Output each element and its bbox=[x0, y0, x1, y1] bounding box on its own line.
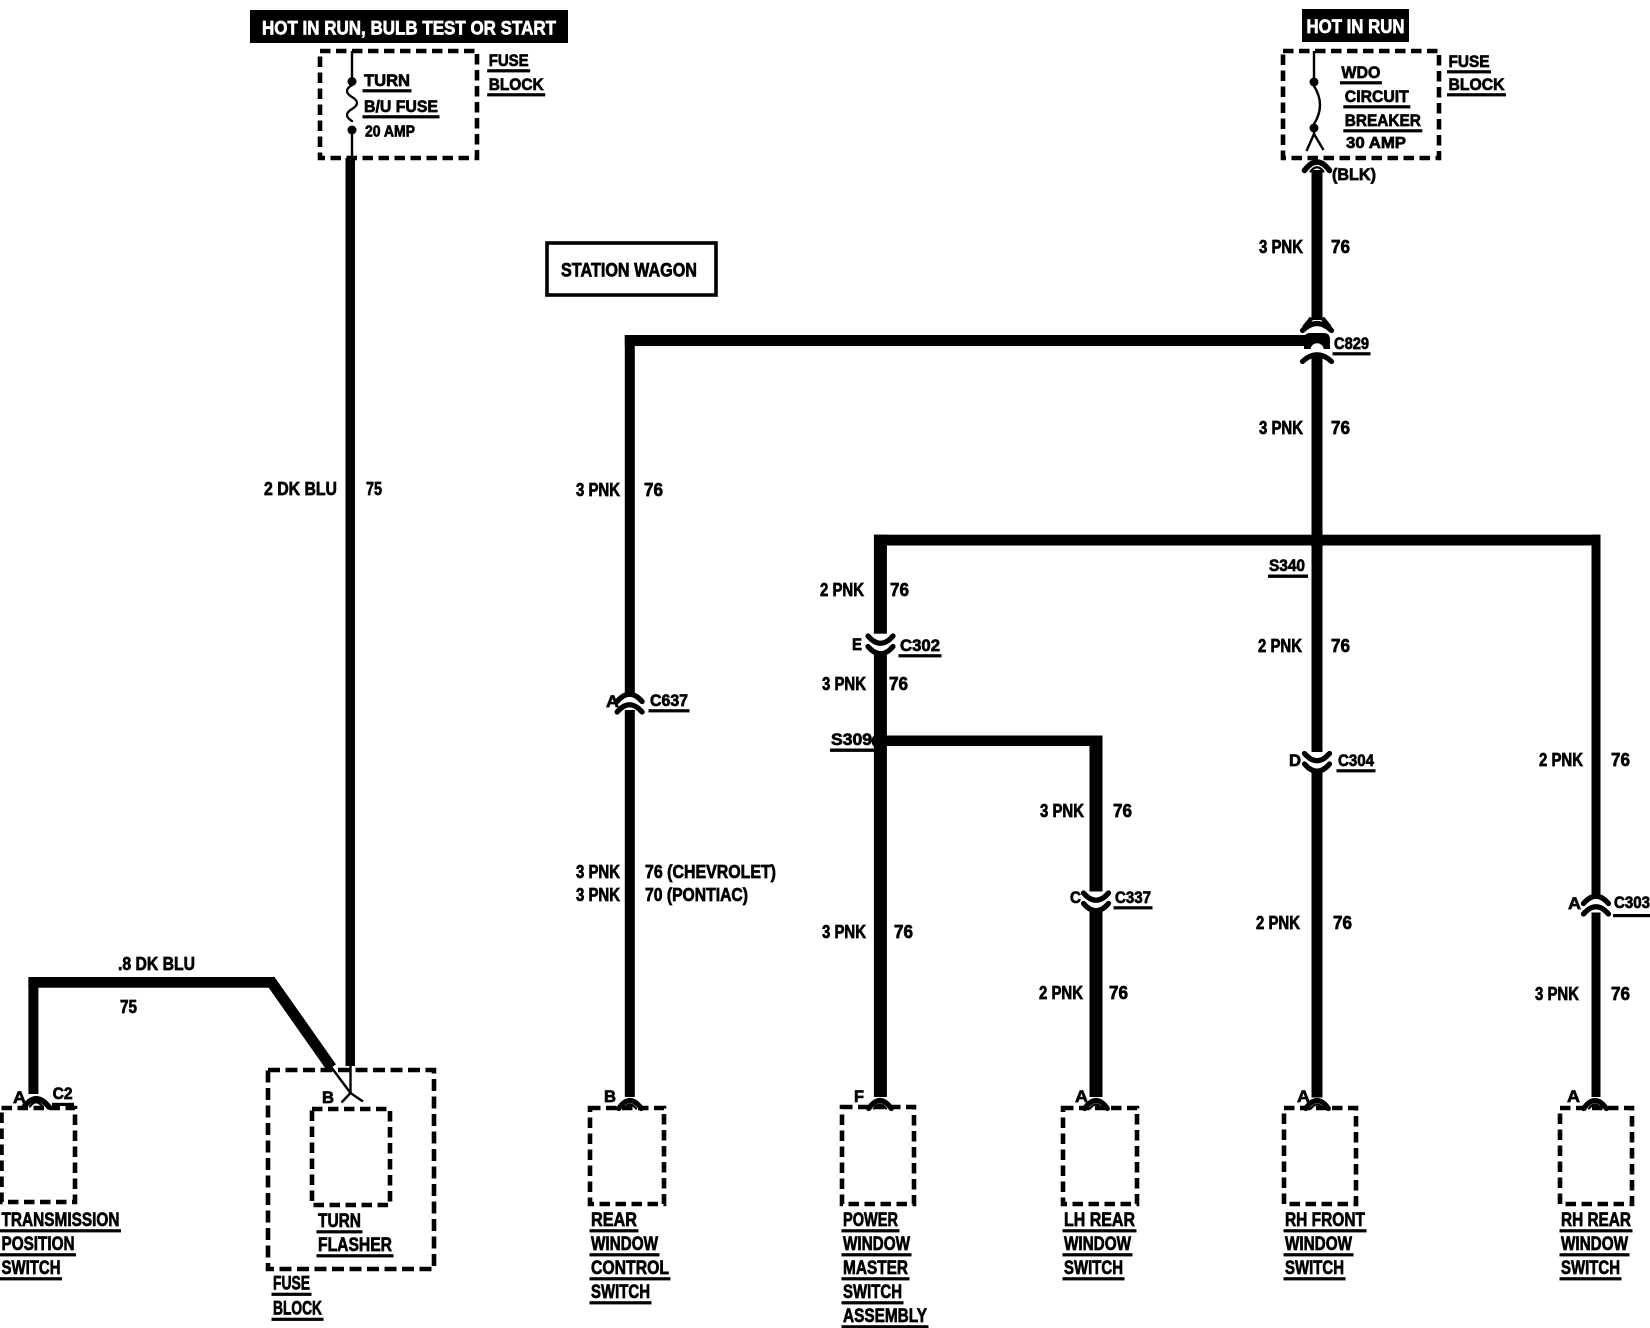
pin B of rear window control switch bbox=[604, 1087, 641, 1109]
pin A of RH front window switch bbox=[1297, 1087, 1328, 1109]
pin A of LH rear window switch bbox=[1075, 1087, 1107, 1109]
wire from station-wagon branch to C829 bbox=[625, 335, 1307, 693]
svg-text:3 PNK: 3 PNK bbox=[822, 674, 866, 694]
pin A C2 of transmission position switch bbox=[13, 1084, 74, 1107]
wire 3 PNK 76 C829 to S340 bbox=[1312, 357, 1323, 542]
label 3 PNK 76 (above RH rear pin A) bbox=[1535, 984, 1630, 1004]
svg-text:C2: C2 bbox=[53, 1084, 73, 1103]
connector C829 symbol bbox=[1303, 318, 1332, 362]
LH rear window switch box bbox=[1063, 1108, 1137, 1204]
label 3 PNK 76 (upper right) bbox=[1259, 237, 1350, 257]
svg-text:BLOCK: BLOCK bbox=[1449, 75, 1506, 94]
svg-text:3 PNK: 3 PNK bbox=[576, 862, 620, 882]
svg-text:S309: S309 bbox=[831, 730, 872, 749]
svg-text:BLOCK: BLOCK bbox=[489, 75, 545, 94]
connector C302 symbol bbox=[868, 636, 893, 654]
svg-text:HOT IN RUN, BULB TEST OR START: HOT IN RUN, BULB TEST OR START bbox=[262, 18, 556, 40]
label 3 PNK 76 (above S340) bbox=[1259, 418, 1350, 438]
wire S340 horizontal bus bbox=[874, 535, 1601, 546]
turn flasher fuse block outer box bbox=[268, 1070, 434, 1269]
svg-text:3 PNK: 3 PNK bbox=[1535, 984, 1579, 1004]
connector terminal (BLK) at fuse block bbox=[1305, 162, 1330, 172]
svg-text:2 PNK: 2 PNK bbox=[1256, 913, 1300, 933]
svg-text:75: 75 bbox=[120, 997, 137, 1017]
svg-text:D: D bbox=[1289, 751, 1301, 770]
wire 3 PNK 76 C303 to RH rear window switch bbox=[1592, 913, 1601, 1098]
wire 2 PNK 76 S340 to C302 bbox=[874, 535, 887, 634]
power window master switch assembly box bbox=[842, 1107, 914, 1204]
svg-text:CIRCUIT: CIRCUIT bbox=[1345, 87, 1410, 106]
svg-text:WDO: WDO bbox=[1341, 63, 1380, 82]
fuse TURN B/U FUSE 20 AMP symbol bbox=[347, 51, 357, 158]
label 2 PNK 76 (above C304) bbox=[1258, 636, 1350, 656]
svg-text:2 PNK: 2 PNK bbox=[1039, 983, 1083, 1003]
label POWER WINDOW MASTER SWITCH ASSEMBLY bbox=[842, 1210, 929, 1328]
turn flasher inner box bbox=[312, 1109, 390, 1205]
label TRANSMISSION POSITION SWITCH bbox=[0, 1210, 121, 1280]
svg-text:F: F bbox=[854, 1087, 864, 1106]
svg-text:TRANSMISSION: TRANSMISSION bbox=[2, 1210, 120, 1231]
svg-text:WINDOW: WINDOW bbox=[843, 1234, 910, 1255]
svg-text:FUSE: FUSE bbox=[489, 51, 529, 70]
wire 2 PNK 76 S340 to C304 bbox=[1312, 542, 1323, 752]
svg-text:70 (PONTIAC): 70 (PONTIAC) bbox=[645, 885, 748, 905]
wire 2 PNK 76 C304 to RH front window switch bbox=[1312, 769, 1323, 1098]
svg-text:76: 76 bbox=[1113, 801, 1132, 821]
label S309 bbox=[830, 730, 874, 752]
wire 2 PNK 76 S340 to C303 bbox=[1592, 535, 1601, 895]
label 3 PNK 76 (station wagon branch) bbox=[576, 480, 663, 500]
label RH REAR WINDOW SWITCH bbox=[1560, 1210, 1633, 1280]
svg-text:A: A bbox=[13, 1088, 26, 1107]
svg-text:2 PNK: 2 PNK bbox=[820, 580, 864, 600]
svg-text:76: 76 bbox=[644, 480, 663, 500]
svg-text:WINDOW: WINDOW bbox=[1285, 1234, 1352, 1255]
wire .8 DK BLU 75 to transmission position switch bbox=[28, 977, 275, 1094]
svg-text:C303: C303 bbox=[1614, 893, 1650, 912]
svg-text:30 AMP: 30 AMP bbox=[1346, 135, 1406, 152]
junction S309 bbox=[872, 734, 887, 749]
label S340 bbox=[1268, 556, 1308, 578]
banner: HOT IN RUN bbox=[1302, 9, 1409, 42]
svg-text:2 PNK: 2 PNK bbox=[1258, 636, 1302, 656]
label C829 bbox=[1333, 334, 1371, 355]
svg-text:RH FRONT: RH FRONT bbox=[1285, 1210, 1365, 1231]
svg-text:SWITCH: SWITCH bbox=[1285, 1258, 1344, 1279]
fuse block (turn b/u fuse) dashed box bbox=[320, 51, 477, 158]
svg-text:2 PNK: 2 PNK bbox=[1539, 750, 1583, 770]
label REAR WINDOW CONTROL SWITCH bbox=[590, 1210, 671, 1304]
wire 3 PNK 76 breaker to C829 bbox=[1312, 170, 1323, 320]
svg-text:E: E bbox=[852, 635, 862, 654]
label FUSE BLOCK (turn flasher) bbox=[272, 1274, 324, 1321]
label pin B of turn flasher bbox=[322, 1088, 334, 1107]
svg-text:76: 76 bbox=[1333, 913, 1352, 933]
svg-text:76: 76 bbox=[1109, 983, 1128, 1003]
svg-text:BREAKER: BREAKER bbox=[1345, 111, 1421, 130]
RH front window switch box bbox=[1284, 1108, 1356, 1204]
svg-text:76: 76 bbox=[1331, 636, 1350, 656]
label 2 PNK 76 (above LH rear pin A) bbox=[1039, 983, 1128, 1003]
svg-text:3 PNK: 3 PNK bbox=[576, 885, 620, 905]
svg-text:CONTROL: CONTROL bbox=[591, 1258, 669, 1279]
svg-text:20 AMP: 20 AMP bbox=[365, 124, 415, 141]
RH rear window switch box bbox=[1560, 1108, 1632, 1204]
station wagon callout box bbox=[547, 243, 716, 295]
label 2 PNK 76 (above C302) bbox=[820, 580, 909, 600]
wire 3 PNK 76/70 C637 to rear window control switch bbox=[625, 710, 635, 1097]
label RH FRONT WINDOW SWITCH bbox=[1284, 1210, 1367, 1280]
svg-text:C304: C304 bbox=[1338, 751, 1374, 770]
svg-text:C337: C337 bbox=[1115, 888, 1151, 907]
label A C637 bbox=[606, 691, 690, 712]
svg-text:WINDOW: WINDOW bbox=[591, 1234, 658, 1255]
label 2 PNK 76 (above RH front pin A) bbox=[1256, 913, 1352, 933]
svg-text:75: 75 bbox=[366, 479, 382, 499]
fuse block (wdo circuit breaker) dashed box bbox=[1283, 51, 1439, 158]
label .8 DK BLU 75 bbox=[118, 954, 195, 1017]
wire S309 to C337 branch bbox=[879, 736, 1103, 892]
connector C304 symbol bbox=[1305, 754, 1330, 772]
svg-text:C637: C637 bbox=[650, 691, 688, 710]
svg-text:C829: C829 bbox=[1334, 334, 1369, 353]
svg-text:STATION WAGON: STATION WAGON bbox=[561, 261, 697, 282]
svg-text:2 DK BLU: 2 DK BLU bbox=[264, 479, 337, 499]
svg-text:SWITCH: SWITCH bbox=[591, 1282, 650, 1303]
svg-text:3 PNK: 3 PNK bbox=[1259, 237, 1303, 257]
svg-text:A: A bbox=[606, 692, 619, 711]
svg-text:POSITION: POSITION bbox=[2, 1234, 75, 1255]
label LH REAR WINDOW SWITCH bbox=[1063, 1210, 1137, 1280]
svg-text:.8 DK BLU: .8 DK BLU bbox=[118, 954, 195, 974]
svg-text:76: 76 bbox=[1331, 418, 1350, 438]
svg-text:MASTER: MASTER bbox=[843, 1258, 908, 1279]
svg-text:76: 76 bbox=[1331, 237, 1350, 257]
wire 3 PNK 76 S309 to power window master switch bbox=[874, 741, 887, 1097]
svg-text:C302: C302 bbox=[900, 636, 940, 655]
svg-text:S340: S340 bbox=[1269, 556, 1305, 575]
svg-text:FUSE: FUSE bbox=[1449, 52, 1490, 71]
label 3 PNK 76 (above S309) bbox=[822, 674, 908, 694]
svg-text:TURN: TURN bbox=[318, 1211, 361, 1232]
svg-text:76: 76 bbox=[889, 674, 908, 694]
svg-text:3 PNK: 3 PNK bbox=[576, 480, 620, 500]
circuit breaker WDO 30 AMP symbol bbox=[1307, 51, 1324, 151]
label (BLK) bbox=[1332, 165, 1376, 184]
svg-text:A: A bbox=[1297, 1087, 1310, 1106]
svg-text:WINDOW: WINDOW bbox=[1064, 1234, 1131, 1255]
svg-text:TURN: TURN bbox=[364, 71, 410, 90]
svg-text:3 PNK: 3 PNK bbox=[822, 922, 866, 942]
label E C302 bbox=[852, 635, 942, 657]
connector C637 symbol bbox=[617, 694, 642, 712]
transmission position switch box bbox=[2, 1108, 76, 1202]
label FUSE BLOCK (left) bbox=[487, 51, 545, 96]
svg-text:POWER: POWER bbox=[843, 1210, 898, 1231]
label A C303 bbox=[1568, 893, 1650, 917]
label 3 PNK 76 (CHEVROLET) / 3 PNK 70 (PONTIAC) bbox=[576, 862, 776, 905]
svg-text:C: C bbox=[1070, 888, 1081, 907]
svg-text:RH REAR: RH REAR bbox=[1561, 1210, 1631, 1231]
svg-text:SWITCH: SWITCH bbox=[843, 1282, 902, 1303]
junction S340 bbox=[1310, 535, 1324, 549]
svg-text:A: A bbox=[1075, 1087, 1088, 1106]
label D C304 bbox=[1289, 751, 1376, 772]
wire 3 PNK 76 C302 to S309 bbox=[874, 655, 887, 741]
svg-text:B/U FUSE: B/U FUSE bbox=[364, 97, 438, 116]
svg-text:76: 76 bbox=[890, 580, 909, 600]
pin A of RH rear window switch bbox=[1567, 1087, 1606, 1109]
svg-text:SWITCH: SWITCH bbox=[1064, 1258, 1123, 1279]
label 2 DK BLU 75 bbox=[264, 479, 382, 499]
svg-text:ASSEMBLY: ASSEMBLY bbox=[843, 1306, 927, 1327]
svg-text:SWITCH: SWITCH bbox=[1561, 1258, 1620, 1279]
wire 2 PNK 76 C337 to LH rear window switch bbox=[1090, 909, 1103, 1097]
svg-text:REAR: REAR bbox=[591, 1210, 637, 1231]
label 2 PNK 76 (above C303) bbox=[1539, 750, 1630, 770]
svg-text:B: B bbox=[604, 1087, 616, 1106]
label 3 PNK 76 (above C337) bbox=[1040, 801, 1132, 821]
svg-text:B: B bbox=[322, 1088, 334, 1107]
connector C337 symbol bbox=[1084, 893, 1109, 911]
pin F of power window master switch bbox=[854, 1087, 891, 1109]
wire 2 DK BLU 75 from fuse to turn flasher bbox=[346, 158, 356, 1066]
svg-text:BLOCK: BLOCK bbox=[273, 1299, 322, 1320]
rear window control switch box bbox=[590, 1108, 664, 1204]
label C C337 bbox=[1070, 888, 1153, 909]
connector C303 symbol bbox=[1584, 896, 1609, 914]
svg-text:HOT IN RUN: HOT IN RUN bbox=[1307, 17, 1405, 38]
svg-text:FUSE: FUSE bbox=[273, 1274, 310, 1295]
svg-text:3 PNK: 3 PNK bbox=[1259, 418, 1303, 438]
svg-text:A: A bbox=[1567, 1087, 1580, 1106]
label FUSE BLOCK (right) bbox=[1447, 52, 1506, 96]
svg-text:LH REAR: LH REAR bbox=[1064, 1210, 1135, 1231]
svg-text:WINDOW: WINDOW bbox=[1561, 1234, 1628, 1255]
banner: HOT IN RUN, BULB TEST OR START bbox=[250, 10, 568, 43]
label WDO CIRCUIT BREAKER 30 AMP bbox=[1340, 63, 1422, 152]
diagonal wire to turn flasher pin B bbox=[271, 982, 363, 1103]
label 3 PNK 76 (above pin F) bbox=[822, 922, 913, 942]
svg-text:FLASHER: FLASHER bbox=[318, 1235, 392, 1256]
svg-text:76: 76 bbox=[1611, 984, 1630, 1004]
svg-text:76 (CHEVROLET): 76 (CHEVROLET) bbox=[645, 862, 776, 882]
label TURN FLASHER bbox=[317, 1211, 394, 1257]
svg-text:SWITCH: SWITCH bbox=[2, 1258, 61, 1279]
svg-text:(BLK): (BLK) bbox=[1332, 165, 1376, 184]
svg-text:3 PNK: 3 PNK bbox=[1040, 801, 1084, 821]
svg-text:76: 76 bbox=[1611, 750, 1630, 770]
svg-text:76: 76 bbox=[894, 922, 913, 942]
svg-text:A: A bbox=[1568, 894, 1581, 913]
label TURN B/U FUSE 20 AMP bbox=[363, 71, 440, 141]
